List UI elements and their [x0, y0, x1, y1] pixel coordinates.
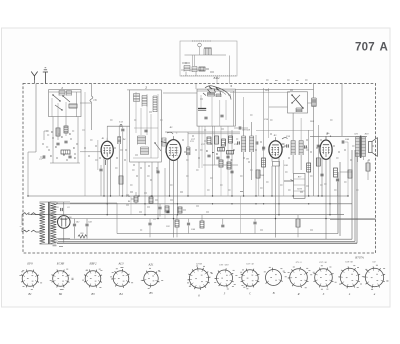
svg-text:B5: B5	[149, 291, 153, 295]
svg-text:S1-S9: S1-S9	[196, 263, 203, 266]
svg-text:B3: B3	[91, 292, 95, 296]
svg-text:C14: C14	[126, 195, 129, 198]
svg-text:C57+58: C57+58	[319, 262, 327, 264]
svg-text:B4: B4	[119, 292, 123, 296]
svg-text:+CV+S: +CV+S	[295, 262, 303, 264]
svg-text:EBF2: EBF2	[89, 262, 97, 266]
svg-text:B: B	[273, 291, 275, 295]
svg-text:CV1+CV2: CV1+CV2	[219, 265, 229, 267]
svg-text:C59+60: C59+60	[345, 262, 353, 264]
svg-text:AZ1: AZ1	[147, 262, 154, 266]
svg-text:B2: B2	[59, 292, 63, 296]
svg-text:R19 R24: R19 R24	[241, 129, 251, 132]
svg-text:C43: C43	[88, 221, 91, 224]
svg-text:2: 2	[144, 86, 147, 90]
svg-text:EF9: EF9	[26, 262, 33, 266]
svg-text:B707A: B707A	[355, 256, 364, 260]
svg-text:III: III	[245, 159, 249, 161]
svg-text:707: 707	[355, 42, 375, 54]
svg-text:C57+58: C57+58	[246, 264, 254, 266]
svg-text:~: ~	[20, 225, 22, 229]
svg-text:B+: B+	[325, 133, 330, 136]
svg-text:B1: B1	[102, 137, 105, 140]
svg-text:AL3: AL3	[117, 262, 124, 266]
svg-text:R: R	[297, 292, 300, 296]
svg-text:C42: C42	[76, 221, 79, 224]
svg-text:R25: R25	[79, 233, 83, 235]
svg-text:B1: B1	[28, 292, 32, 296]
svg-text:ECH3: ECH3	[56, 262, 65, 266]
svg-text:C41: C41	[55, 206, 58, 209]
svg-text:R17b: R17b	[296, 189, 303, 191]
svg-text:C31: C31	[190, 141, 194, 143]
svg-text:A: A	[380, 42, 388, 54]
